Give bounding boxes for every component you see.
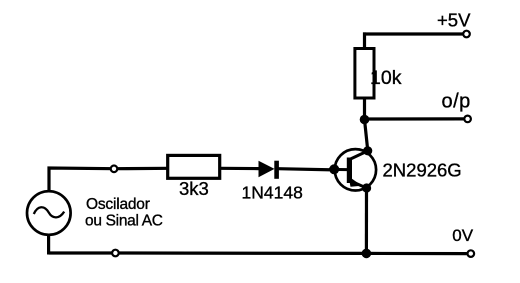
svg-text:Oscilador: Oscilador [86,196,150,213]
resistor R2 3k3 [168,155,220,178]
+5V rail wire [363,32,463,35]
wire input terminal to R2 [114,167,169,171]
transistor Q1 emitter lead [349,181,366,189]
wire rail to R1 top [363,32,366,50]
svg-text:10k: 10k [370,67,402,89]
svg-text:3k3: 3k3 [179,178,209,199]
svg-text:0V: 0V [452,226,473,245]
node 0V junction [362,249,372,259]
wire base lead [329,168,348,171]
wire R1 bottom to o/p node [363,98,366,121]
node emitter dot [362,183,371,192]
wire node to collector [365,120,368,152]
node collector dot [363,146,372,155]
diode D1 anode triangle [259,161,275,178]
diode D1 cathode bar [274,161,279,179]
svg-text:o/p: o/p [442,90,471,112]
terminal top input [111,166,118,173]
svg-text:ou Sinal AC: ou Sinal AC [85,213,163,230]
wire top-left corner to input terminal [49,168,114,192]
terminal +5V [463,31,470,38]
wire R2 to D1 [220,167,260,171]
o/p rail wire [365,117,464,120]
transistor Q1 collector lead [349,151,367,160]
node o/p junction [360,115,370,125]
wire D1 to base node [278,169,334,170]
transistor Q1 body circle [335,149,376,190]
terminal bottom input [112,250,119,257]
svg-text:+5V: +5V [437,10,471,31]
resistor R1 10k [355,49,374,99]
wire emitter to 0V rail [365,188,368,254]
transistor Q1 base bar [347,158,352,184]
0V rail wire [49,251,467,255]
transistor Q1 emitter arrow [349,176,362,187]
AC source V1 sine wave [34,207,64,217]
node base junction dot [329,164,339,174]
terminal 0V [468,250,475,257]
svg-text:1N4148: 1N4148 [242,182,303,202]
svg-text:2N2926G: 2N2926G [383,160,462,181]
AC source V1 body [27,191,71,235]
wire AC source bottom to 0V rail [47,235,50,255]
terminal o/p [464,116,471,123]
